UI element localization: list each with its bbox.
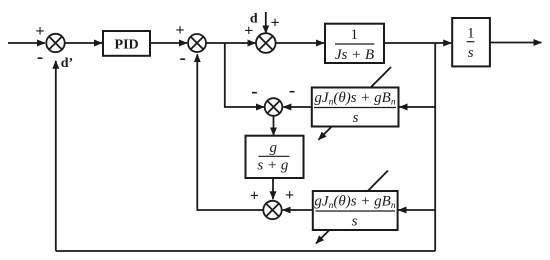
svg-text:1: 1: [467, 26, 475, 42]
wire: feedback tap into B3 right: [400, 106, 436, 108]
svg-text:s: s: [468, 45, 474, 61]
wire: B5 output into S5 right: [283, 209, 313, 211]
wire: S1 to PID: [65, 42, 102, 44]
fraction bar of 1/(Js+B): [335, 43, 374, 45]
block g/(s+g) filter: [246, 136, 304, 178]
svg-text:d’: d’: [61, 56, 73, 71]
fraction bar of 1/s: [467, 41, 475, 43]
svg-text:-: -: [251, 81, 257, 102]
wire: disturbance d arrow into S3 top: [265, 12, 267, 33]
wire: left feedback vertical up into S1 bottom: [55, 61, 57, 251]
wire: bottom feedback run: [56, 250, 435, 252]
wire: main feedback vertical from top wire: [434, 43, 436, 251]
svg-text:-: -: [289, 80, 295, 101]
fraction bar of upper estimator: [314, 107, 396, 109]
wire: reference input arrow into S1: [8, 42, 45, 44]
svg-text:Js + B: Js + B: [335, 47, 374, 63]
svg-text:PID: PID: [115, 37, 139, 52]
fraction bar of lower estimator: [316, 210, 396, 212]
wire: B3 output into S4 right: [283, 106, 312, 108]
svg-text:+: +: [270, 15, 279, 32]
wire: filter output down to S5: [272, 178, 274, 199]
block PID controller: [103, 31, 150, 56]
summing junction S1: [46, 34, 64, 52]
wire: plant to integrator: [384, 42, 451, 44]
svg-text:s + g: s + g: [257, 158, 288, 174]
block B5 gJn(th)s+gBn over s (lower estimator): [313, 191, 398, 230]
summing junction S2: [188, 34, 206, 52]
summing junction S5: [263, 201, 281, 219]
wire: S4 output down to filter block: [273, 116, 275, 136]
svg-text:+: +: [285, 187, 294, 204]
svg-text:+: +: [175, 22, 184, 39]
wire: feedback tap into B5 right: [399, 209, 436, 211]
svg-text:1: 1: [351, 27, 359, 43]
wire: S5 output left and up into S2 bottom: [197, 54, 263, 210]
block 1/(Js+B) plant: [325, 24, 384, 63]
block B3 gJn(th)s+gBn over s (upper estimator): [312, 88, 399, 127]
block 1/s integrator: [452, 18, 490, 66]
adaptive diagonal arrow through B5: [316, 171, 388, 244]
svg-text:-: -: [180, 47, 186, 68]
svg-text:-: -: [37, 47, 43, 68]
svg-text:+: +: [35, 23, 44, 40]
fraction bar of filter: [259, 155, 290, 157]
svg-text:gJn(θ)s + gBn: gJn(θ)s + gBn: [314, 90, 395, 108]
wire: S3 to plant block: [276, 42, 324, 44]
wire: PID to S2: [150, 42, 187, 44]
svg-text:s: s: [352, 213, 358, 229]
summing junction S4: [265, 98, 283, 116]
svg-text:g: g: [270, 140, 278, 156]
svg-text:+: +: [250, 188, 259, 205]
svg-text:gJn(θ)s + gBn: gJn(θ)s + gBn: [314, 194, 395, 212]
summing junction S3: [256, 33, 276, 53]
wire: S2 to S3: [206, 42, 256, 44]
wire: branch from top wire down to S4: [225, 43, 264, 107]
wire: output arrow: [490, 42, 542, 44]
svg-text:+: +: [244, 22, 253, 39]
adaptive diagonal arrow through B3: [319, 67, 392, 140]
svg-text:s: s: [353, 110, 359, 126]
